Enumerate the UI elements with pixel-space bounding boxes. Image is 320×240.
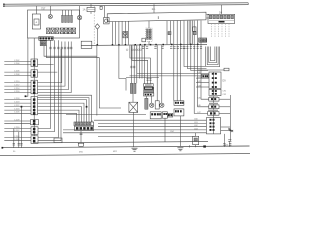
svg-text:+: + [35, 21, 37, 25]
left column chain harness [33, 38, 35, 136]
wire bus to ignition switch [104, 6, 106, 18]
wire lamp box to bottom bus [164, 118, 166, 142]
control unit long box [107, 12, 206, 22]
bottom cluster pin strip [74, 122, 94, 126]
terminal square T2 [3, 5, 4, 6]
svg-text:C.216: C.216 [14, 91, 20, 93]
corner comb wire c [191, 44, 208, 70]
fuse feeds to box top [63, 10, 72, 15]
svg-text:C.226: C.226 [14, 112, 20, 114]
cluster drop to ground [80, 131, 83, 143]
right conn box R3 [208, 112, 219, 116]
right drop line [229, 95, 231, 141]
svg-text:C.230: C.230 [14, 127, 20, 129]
pin box under lamps [150, 112, 161, 119]
labels left wires right bracket2 [0, 0, 1, 1]
left col connector box 2 [31, 70, 38, 77]
wire bus to lamp B2 [79, 6, 81, 16]
nested U wire 3 [209, 47, 217, 63]
resistor pack center [130, 83, 136, 93]
ignition switch body [104, 18, 110, 24]
corner comb wire b [187, 44, 206, 68]
wire y70 with tag [198, 68, 229, 71]
terminal square bottom left [2, 147, 4, 149]
resistor bar center dark [145, 98, 148, 109]
wire big box to lower left col C [38, 40, 58, 137]
bus 15 top line 2 [4, 5, 248, 6]
junction dot left [25, 95, 27, 97]
small box left of grid connector [142, 38, 145, 42]
right conn box R2 [209, 105, 219, 109]
nested L wire 4 [38, 107, 82, 122]
right fuse block pins [209, 15, 233, 18]
right column bracket 1 [209, 72, 221, 89]
lamp B1 [48, 15, 52, 19]
drop from bracket2 bottom [223, 134, 225, 141]
battery plus cell [34, 19, 39, 25]
svg-text:C.228: C.228 [14, 119, 20, 121]
dark label box center [144, 87, 154, 90]
verticals to bottom bus right [224, 141, 229, 147]
left wires group 1 [4, 61, 31, 75]
wire bus to lamp B1 [49, 6, 51, 15]
text box center [144, 84, 154, 87]
ground stack center 1 [132, 148, 138, 151]
svg-text:14.: 14. [152, 7, 156, 11]
left col connector box 4 [31, 127, 38, 135]
label smudge above R2 [209, 103, 218, 104]
svg-text:757: 757 [41, 6, 46, 10]
svg-text:C.224: C.224 [14, 109, 20, 111]
center mid verticals [131, 45, 144, 83]
fuse bar F1 [62, 15, 64, 22]
gray drops below right block [212, 24, 230, 38]
lamp B2 on box edge [77, 15, 81, 19]
nested U wire 4 [210, 47, 215, 61]
bottom bus upper [33, 142, 208, 143]
right fuse block lower strip [209, 21, 234, 23]
hatched strip under label [144, 90, 154, 93]
nested L wire 5 [38, 110, 80, 122]
dashed feed line [93, 6, 95, 45]
wire mid comp to ground right [179, 116, 181, 146]
wire bus to 1A box [90, 4, 92, 14]
ground stack center 2 [177, 148, 183, 151]
nested L wire 6 [38, 113, 77, 122]
wire comb to left bracket row 2 [38, 42, 66, 87]
center distribution bus [81, 44, 207, 45]
fuse bar F2 [65, 15, 67, 22]
small box on center bus left [81, 41, 92, 48]
wire end circles below bus [126, 49, 141, 51]
labels left of right conn boxes [197, 98, 202, 114]
wires strip to lamps [146, 96, 151, 103]
pin pair low mid [167, 113, 172, 117]
bottom cluster box [75, 126, 94, 130]
wire diamond drop [96, 29, 98, 45]
junction dots on center bus [112, 44, 199, 46]
fuse 1A box [87, 7, 95, 11]
terminal blob on bottom bus [203, 145, 206, 147]
wire comb to left bracket row 4 [38, 42, 72, 93]
labels on long wires [170, 119, 199, 134]
svg-text:C.204: C.204 [14, 63, 20, 65]
capacitor comp 1 [168, 32, 171, 35]
small grid connector above bus right [199, 38, 207, 42]
corner wire A from grid box [44, 46, 97, 56]
corner wire comb to R2 [198, 44, 209, 107]
nested L wire 3 [38, 103, 85, 122]
bus 30 top line 1 [4, 3, 248, 4]
battery sub-box [32, 14, 40, 29]
fuse box unit M1 outline [28, 10, 80, 38]
motor box with X [129, 102, 138, 112]
lamp L1 [150, 103, 154, 107]
wire motor to ground [133, 112, 135, 146]
left wire labels 4 [14, 119, 20, 141]
nested L wire 1 [38, 98, 90, 122]
svg-text:1A: 1A [83, 9, 86, 12]
flasher relay [123, 32, 128, 38]
connector ticks on drop wires [49, 47, 59, 49]
svg-text:C.208: C.208 [14, 74, 20, 76]
left wires group 3 [4, 100, 31, 114]
right conn box R1 [209, 97, 219, 101]
stub grid connector to bus [148, 41, 150, 44]
fuse bar F4 [71, 15, 73, 22]
label smudge above R3 [208, 110, 218, 111]
comb from long box right section [167, 21, 201, 45]
wire box2 to harness vertical [38, 71, 58, 73]
ground connector comp right [193, 136, 199, 144]
labels above right col upper [197, 72, 202, 87]
ticks below center bus cluster b [170, 47, 186, 49]
svg-text:C.220: C.220 [14, 102, 20, 104]
left col bracket 2 [31, 97, 38, 115]
connector ticks center verticals [130, 66, 135, 68]
left col connector box 3a [31, 120, 39, 125]
left drops to bottom bus [14, 107, 22, 148]
nested U wire 1 [206, 47, 220, 67]
ground block bottom center-left [78, 143, 84, 146]
junction dot right drop [230, 130, 232, 132]
labels under bottom bus [13, 151, 118, 153]
center mid verticals right [130, 44, 181, 103]
grid connector X1 dashed [146, 28, 153, 41]
left wires group 2 [4, 83, 31, 93]
long wires center to right col [63, 120, 206, 133]
corner wire comb to R1 [201, 44, 209, 99]
tick inside long box [157, 16, 159, 19]
wire through ground comp [195, 133, 197, 147]
ticks on comb [61, 47, 73, 49]
svg-text:C.210: C.210 [14, 81, 20, 83]
left wire labels 3 [14, 98, 20, 114]
labels right of rows2 [223, 91, 228, 96]
bracket 1 wires left [196, 78, 209, 87]
corner wire B [47, 46, 122, 108]
tick on bottom bus [188, 145, 190, 147]
left col connector box 5 [31, 136, 38, 144]
small comp on drop [193, 27, 196, 31]
conn cluster right mid lower [174, 109, 184, 116]
wire long box to grid connector [148, 21, 150, 28]
capacitor comp 2 [193, 32, 196, 35]
ticks right drops [223, 140, 231, 145]
long wire y136 [98, 135, 196, 137]
svg-text:C.202: C.202 [14, 60, 20, 62]
right column rows 2 [209, 89, 221, 95]
svg-text:C.214: C.214 [14, 88, 20, 90]
terminal square T1 [3, 4, 4, 5]
drop wires long box to center bus [112, 21, 128, 45]
horizontal wire y77.5 [126, 77, 159, 79]
corner wire A vertical [96, 46, 98, 116]
long wire to bracket row 1 [137, 45, 209, 73]
right wires to drop line [219, 99, 230, 113]
small grid connector under strip [40, 41, 46, 46]
wire bus to right block [221, 5, 223, 14]
relay squares group 2 [60, 28, 75, 34]
pin stubs right of long box [207, 15, 210, 19]
ticks on left drops [13, 144, 23, 146]
splice X marks [228, 128, 233, 132]
wires bracket2 to drop [221, 127, 233, 131]
connector strip under box [39, 37, 53, 41]
comb stub lines [189, 21, 192, 45]
pin box under lamps 2 [162, 112, 167, 118]
left wire labels 1 [14, 60, 20, 76]
small comp on lower bus left 2 [54, 138, 62, 143]
big corner wire center [119, 46, 126, 91]
junction dot nested [86, 106, 88, 108]
wire from bus to battery column [35, 6, 37, 14]
wire box left edge down [26, 38, 28, 96]
lamp L2 [160, 103, 164, 107]
wire comb to left bracket row 3 [38, 42, 69, 90]
bottom bus main [3, 146, 250, 148]
svg-text:C.232: C.232 [14, 130, 20, 132]
left col connector box 1 [31, 59, 38, 67]
right fuse block outline [208, 14, 235, 23]
svg-text:C.206: C.206 [14, 71, 20, 73]
wire row y114 to center [66, 114, 146, 116]
junction dot on wire y110 [21, 106, 23, 108]
wire big box to lower left col A [38, 40, 51, 128]
left wires group 4 [4, 121, 31, 141]
svg-text:C.212: C.212 [14, 85, 20, 87]
svg-text:C.222: C.222 [14, 105, 20, 107]
pin row left of bracket 1 [202, 74, 209, 78]
svg-text:C.218: C.218 [14, 98, 20, 100]
ticks below bus right cluster [183, 47, 202, 49]
corner comb wire a [184, 44, 205, 66]
label smudge above R1 [209, 95, 218, 96]
junction dot on bus center [97, 44, 99, 46]
switch comp mid [155, 101, 159, 109]
wire to lower left col D [38, 49, 61, 141]
page bottom border [0, 154, 250, 156]
wire comb to left bracket row 1 [38, 42, 62, 83]
ticks below center bus cluster a [142, 47, 164, 49]
nested U wire 2 [207, 47, 218, 65]
nested L wire 2 [38, 100, 87, 122]
left col bracket 1 [31, 80, 38, 94]
light strip under hatch [144, 93, 154, 96]
svg-text:C.236: C.236 [14, 139, 20, 141]
svg-text:23.: 23. [225, 144, 229, 147]
cluster top corner wire [91, 120, 93, 122]
long wire to bracket row 1b [130, 75, 204, 77]
fuse symbol on feed wire [100, 6, 102, 9]
wire big box to lower left col B [38, 40, 55, 131]
wire resistor to motor [132, 94, 134, 103]
conn cluster right mid upper [174, 101, 184, 106]
right end cap of buses [247, 3, 249, 5]
inline connector diamond [95, 24, 99, 29]
corner wire comb to R3 [194, 44, 207, 113]
wire bus to long box [153, 4, 155, 13]
svg-text:C.234: C.234 [14, 136, 20, 138]
left wire labels 2 [14, 81, 20, 93]
right bracket 2 [206, 118, 220, 134]
right column chain harness [213, 72, 215, 134]
fuse bar F3 [68, 15, 70, 22]
nested L wire 0 [38, 95, 92, 122]
wire box1 to harness vertical [38, 64, 54, 66]
relay squares group 1 [47, 28, 59, 34]
ticks above text box [147, 79, 152, 80]
